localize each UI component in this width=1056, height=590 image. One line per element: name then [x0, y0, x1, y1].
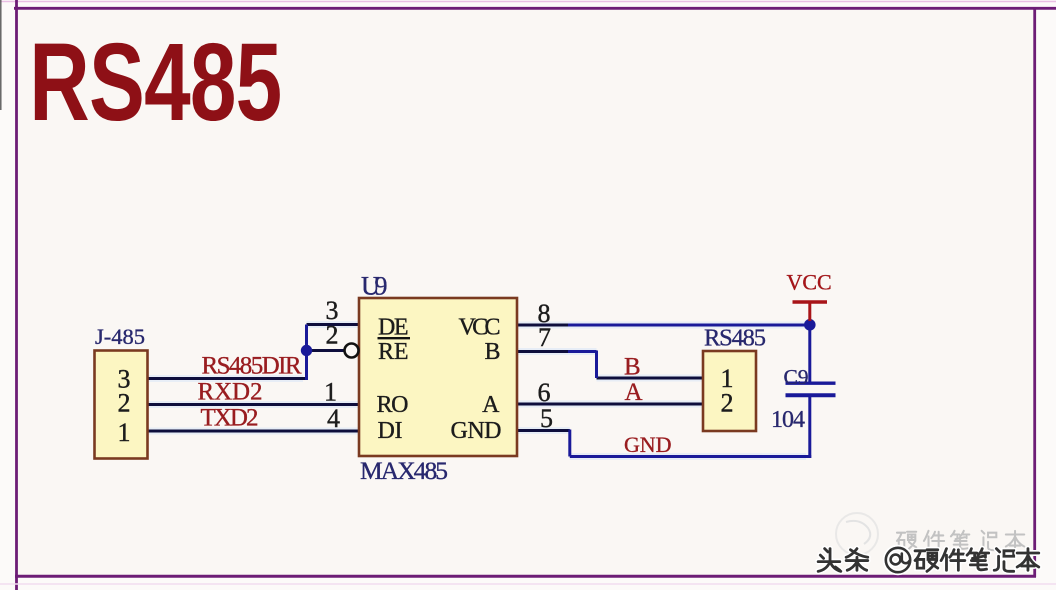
svg-text:RS485DIR: RS485DIR: [202, 353, 302, 380]
svg-text:B: B: [624, 354, 641, 381]
svg-text:RS485: RS485: [29, 20, 281, 144]
svg-text:A: A: [625, 379, 643, 406]
svg-text:J-485: J-485: [95, 324, 145, 349]
svg-text:2: 2: [326, 321, 339, 350]
svg-text:GND: GND: [451, 418, 502, 444]
svg-text:TXD2: TXD2: [201, 405, 259, 432]
svg-text:1: 1: [118, 418, 131, 447]
svg-text:GND: GND: [624, 432, 672, 457]
svg-text:B: B: [484, 339, 500, 365]
svg-text:DE: DE: [378, 315, 409, 341]
svg-text:RE: RE: [378, 339, 409, 365]
svg-text:DI: DI: [378, 418, 403, 444]
svg-text:4: 4: [327, 404, 340, 433]
svg-text:6: 6: [538, 378, 551, 407]
svg-text:2: 2: [118, 389, 131, 418]
svg-text:RS485: RS485: [704, 325, 766, 352]
svg-text:A: A: [482, 392, 500, 418]
svg-text:U9: U9: [361, 272, 388, 301]
svg-text:7: 7: [538, 323, 551, 352]
svg-text:VCC: VCC: [787, 270, 832, 295]
svg-text:RO: RO: [377, 392, 409, 418]
svg-text:MAX485: MAX485: [360, 456, 448, 485]
svg-text:104: 104: [771, 407, 805, 433]
svg-text:RXD2: RXD2: [198, 379, 263, 406]
svg-text:5: 5: [540, 404, 553, 433]
svg-text:C9: C9: [784, 365, 809, 389]
svg-text:VCC: VCC: [459, 315, 501, 341]
svg-text:1: 1: [324, 378, 337, 407]
svg-text:2: 2: [721, 389, 734, 418]
